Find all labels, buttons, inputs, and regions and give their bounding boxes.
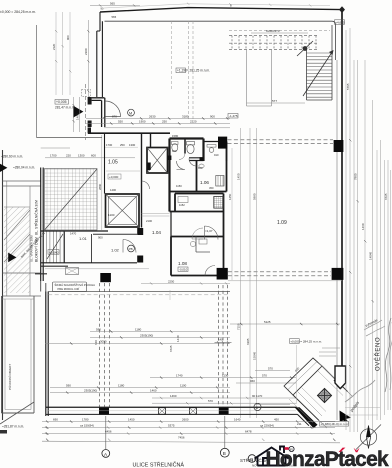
svg-text:=1,07: =1,07 bbox=[205, 229, 213, 233]
svg-text:1460: 1460 bbox=[150, 389, 157, 393]
wall upper-left vertical bbox=[97, 12, 103, 97]
svg-text:= 284,25 m.n.m.: = 284,25 m.n.m. bbox=[300, 339, 322, 343]
black jamb 1.06 bbox=[200, 157, 204, 161]
svg-text:565: 565 bbox=[112, 15, 117, 19]
axis leader B bbox=[224, 416, 226, 448]
svg-text:PŮVODNÍ OBJEKT: PŮVODNÍ OBJEKT bbox=[7, 364, 12, 390]
bottom room north edge bbox=[48, 291, 230, 293]
dim row above cluster 3 bbox=[104, 127, 230, 129]
svg-text:2890: 2890 bbox=[98, 183, 102, 190]
entrance arrow triangle bbox=[73, 106, 83, 118]
bottom dim row 3 bbox=[42, 433, 335, 435]
svg-text:1470: 1470 bbox=[70, 231, 77, 235]
svg-text:1.06: 1.06 bbox=[200, 180, 209, 185]
svg-text:3180: 3180 bbox=[182, 115, 189, 119]
hollow post 2 bbox=[190, 408, 197, 415]
watermark registered bbox=[289, 446, 294, 451]
door arc shaft-elevator bbox=[142, 181, 150, 189]
svg-text:HonzaPtacek: HonzaPtacek bbox=[266, 448, 390, 468]
dim line bottom right short bbox=[270, 427, 316, 429]
neighbour block outline left bbox=[2, 150, 4, 420]
column K6 bottom mid bbox=[219, 407, 229, 414]
svg-text:2220: 2220 bbox=[190, 120, 197, 124]
svg-text:≈280,60 m.n.m.: ≈280,60 m.n.m. bbox=[1, 155, 23, 159]
door arc 1.06 bbox=[189, 159, 197, 167]
watermark accent acute on a bbox=[339, 448, 346, 452]
diagonal passage edge west bbox=[293, 395, 319, 421]
room 1.07 walls bbox=[170, 194, 224, 212]
cursor arrow mark bbox=[340, 411, 352, 425]
svg-text:ULICE STŘELNIČNÁ: ULICE STŘELNIČNÁ bbox=[133, 461, 185, 468]
svg-text:≈280,04 m.n.m.: ≈280,04 m.n.m. bbox=[13, 166, 35, 170]
svg-text:1300: 1300 bbox=[78, 154, 85, 158]
cluster wall x150 top bbox=[150, 133, 152, 147]
svg-text:1.04: 1.04 bbox=[152, 230, 161, 235]
circle marker D bbox=[254, 403, 261, 410]
level box bottom right bbox=[320, 421, 349, 426]
svg-text:ca 220(94): ca 220(94) bbox=[260, 423, 274, 427]
svg-text:5375: 5375 bbox=[168, 423, 175, 427]
entrance jamb lower bbox=[88, 121, 92, 128]
svg-text:640: 640 bbox=[94, 340, 98, 345]
joint dashed pair mid bbox=[218, 285, 227, 407]
svg-text:281,47 m.n.m.: 281,47 m.n.m. bbox=[55, 106, 75, 110]
dashed label box top bbox=[82, 90, 91, 97]
door jamb blocks corridor bbox=[137, 228, 143, 235]
svg-text:1450: 1450 bbox=[236, 173, 240, 180]
svg-text:2305(190): 2305(190) bbox=[84, 389, 97, 393]
dim row below 1.08 bbox=[141, 283, 230, 285]
terrace diagonal bbox=[45, 169, 98, 230]
dashed joint line row1 bbox=[228, 140, 334, 144]
dim row above cluster 1 bbox=[86, 118, 230, 120]
door arc corridor south 2 bbox=[192, 228, 203, 239]
svg-text:690: 690 bbox=[53, 417, 58, 421]
svg-text:1460: 1460 bbox=[361, 223, 365, 230]
dashed vertical x171 bbox=[171, 21, 173, 90]
right margin dim chains bbox=[350, 28, 388, 432]
small room right of wc bbox=[204, 142, 227, 162]
svg-text:900: 900 bbox=[66, 35, 70, 40]
rotated hatch box on passage bbox=[317, 388, 331, 402]
signature squiggle 2 bbox=[345, 380, 375, 402]
canopy inner line bbox=[288, 362, 317, 390]
rooms bottom wall bbox=[41, 262, 137, 264]
column K1 top bbox=[218, 137, 227, 149]
bottom dim ticks bbox=[46, 420, 335, 441]
corridor west wall bbox=[104, 133, 106, 193]
entrance jamb lowest bbox=[88, 128, 91, 134]
level label box entrance bbox=[55, 100, 69, 105]
1.08 inner partition bbox=[196, 237, 210, 253]
right margin extra verticals bbox=[346, 30, 354, 432]
svg-text:140: 140 bbox=[218, 338, 223, 342]
svg-text:1460: 1460 bbox=[170, 394, 177, 398]
room 1.07 fixtures bbox=[178, 197, 188, 203]
svg-text:-1,475: -1,475 bbox=[229, 114, 238, 118]
terrace wing second line bbox=[41, 147, 70, 149]
axis circle B bbox=[220, 448, 229, 457]
passage exit lines bbox=[319, 392, 352, 429]
terrace wall lower extension bbox=[41, 281, 46, 292]
svg-text:+1,190: +1,190 bbox=[177, 69, 187, 73]
room 1.08 walls bbox=[171, 212, 224, 276]
column K2 right top bbox=[334, 140, 344, 152]
svg-text:1400: 1400 bbox=[110, 188, 116, 192]
level box 1.02 bbox=[48, 250, 59, 255]
svg-text:211: 211 bbox=[297, 422, 302, 426]
svg-text:450: 450 bbox=[274, 417, 279, 421]
dim rows under 1.08 left bbox=[50, 388, 230, 393]
svg-text:1100: 1100 bbox=[108, 213, 115, 217]
dim line across right room bbox=[230, 323, 340, 325]
svg-text:1740: 1740 bbox=[176, 373, 183, 377]
axis dashed vertical entrance bbox=[85, 84, 87, 140]
svg-text:450: 450 bbox=[209, 186, 214, 190]
svg-text:+0,040: +0,040 bbox=[49, 250, 59, 254]
svg-text:1.01: 1.01 bbox=[79, 236, 88, 241]
stair dim row 9x300 bbox=[251, 32, 308, 34]
column K0 joint top bbox=[100, 273, 111, 282]
svg-text:2630: 2630 bbox=[149, 115, 156, 119]
diagonal passage edge east bbox=[322, 366, 348, 392]
dim ticks above cluster bbox=[103, 117, 228, 124]
handwritten note right bbox=[364, 320, 385, 336]
svg-text:5880: 5880 bbox=[252, 193, 256, 200]
svg-text:900: 900 bbox=[98, 235, 103, 239]
stair solid flight right bbox=[307, 53, 333, 97]
level label box top right bbox=[335, 20, 345, 25]
wall between 1.01 and 1.02 bbox=[65, 231, 92, 263]
svg-text:1640: 1640 bbox=[234, 417, 241, 421]
svg-text:+0,005: +0,005 bbox=[56, 100, 67, 104]
stair label box bbox=[228, 114, 238, 119]
diagonal canopy parallelogram bbox=[284, 358, 322, 395]
dim chain x232 bbox=[231, 148, 233, 280]
level box 0.000 mid bbox=[290, 339, 300, 344]
svg-text:2600: 2600 bbox=[182, 417, 189, 421]
joint tick cluster bbox=[215, 341, 232, 344]
svg-text:250: 250 bbox=[120, 143, 125, 147]
left top dim chain verticals bbox=[56, 12, 70, 95]
room cluster: corridor 1.05 bbox=[88, 132, 170, 134]
svg-text:550: 550 bbox=[118, 120, 123, 124]
svg-text:570: 570 bbox=[268, 366, 273, 370]
circle marker PB bbox=[128, 245, 135, 252]
passage wall stub bbox=[334, 380, 342, 388]
svg-text:-0,010: -0,010 bbox=[179, 268, 188, 272]
lower stair flight vertical treads bbox=[47, 231, 64, 263]
terrace dim row bbox=[45, 157, 135, 159]
corridor small dims bbox=[106, 170, 140, 172]
wall outer top bbox=[100, 8, 342, 12]
svg-text:1780: 1780 bbox=[82, 417, 89, 421]
level note upper room bbox=[176, 68, 186, 73]
svg-text:BLOKOVÝ DŮM UL. STŘELNIČNÁ 30: BLOKOVÝ DŮM UL. STŘELNIČNÁ 30M bbox=[34, 200, 39, 262]
appliance hatch box 1.07 bbox=[214, 197, 223, 209]
svg-text:1.02: 1.02 bbox=[111, 248, 120, 253]
svg-text:1.09: 1.09 bbox=[277, 220, 287, 226]
signature squiggle 1 bbox=[385, 318, 391, 392]
level box 1.08 bbox=[178, 267, 188, 271]
svg-text:14040: 14040 bbox=[369, 252, 373, 260]
stair direction arrow bbox=[303, 53, 332, 96]
svg-text:1150: 1150 bbox=[176, 184, 182, 188]
svg-text:5795: 5795 bbox=[346, 83, 350, 90]
window symbol south wing bbox=[66, 268, 79, 275]
column K3 mid bbox=[217, 268, 228, 280]
svg-text:600: 600 bbox=[91, 154, 96, 158]
watermark accent caron on c bbox=[354, 448, 360, 452]
shaft X-box upper bbox=[147, 148, 168, 174]
svg-text:1300: 1300 bbox=[129, 143, 136, 147]
bottom wall of big room bbox=[46, 406, 297, 408]
axis leader A bbox=[105, 416, 107, 450]
sink symbol bbox=[209, 148, 214, 153]
wall inner top bbox=[105, 21, 336, 60]
joint mid dim 140 bbox=[169, 290, 171, 300]
svg-text:590: 590 bbox=[96, 327, 101, 331]
svg-text:3050: 3050 bbox=[100, 339, 107, 343]
svg-text:+0,000: +0,000 bbox=[109, 175, 119, 179]
svg-text:220: 220 bbox=[66, 154, 71, 158]
elevator X-box bbox=[106, 194, 140, 227]
right chain ticks bbox=[349, 139, 374, 367]
stair well walls bbox=[307, 25, 333, 100]
svg-text:+4,675: +4,675 bbox=[335, 20, 345, 24]
top margin ticks bbox=[90, 5, 140, 7]
bottom dim row 2 bbox=[42, 427, 335, 429]
canopy dashed verticals bbox=[189, 21, 194, 120]
terrace grid hatch bbox=[45, 169, 98, 231]
column K4 right mid bbox=[332, 268, 344, 280]
svg-text:1700: 1700 bbox=[106, 143, 113, 147]
corridor wall x171 lower bbox=[170, 212, 172, 237]
hollow post 1 bbox=[159, 408, 166, 415]
expansion joint dashed pair left bbox=[100, 283, 110, 407]
second wc fixture bbox=[172, 142, 179, 145]
svg-text:9x300/170: 9x300/170 bbox=[266, 29, 280, 33]
lower neighbour rect outer bbox=[2, 296, 35, 413]
lower terrace wall bbox=[35, 266, 68, 274]
compass cross line bbox=[356, 425, 381, 450]
svg-text:1580: 1580 bbox=[172, 134, 179, 138]
svg-text:910: 910 bbox=[214, 153, 219, 157]
rooms 1.01 1.02 top wall bbox=[41, 230, 108, 232]
pillar pentagon right bbox=[335, 366, 346, 389]
wall inner right bbox=[336, 60, 338, 420]
right margin vertical extra2 bbox=[368, 340, 370, 420]
svg-text:B: B bbox=[223, 451, 226, 456]
svg-text:PRE MODUL CIZÍ: PRE MODUL CIZÍ bbox=[58, 287, 80, 291]
svg-text:250: 250 bbox=[162, 120, 167, 124]
flag triangle upper bbox=[0, 164, 7, 172]
svg-text:1900: 1900 bbox=[139, 120, 146, 124]
svg-text:±0,000 = 284,25 m.n.m.: ±0,000 = 284,25 m.n.m. bbox=[0, 10, 36, 14]
shaft black patch bbox=[147, 163, 150, 171]
1.08 fixtures bbox=[199, 239, 207, 244]
dim chain left of cluster bbox=[101, 135, 103, 230]
svg-text:960: 960 bbox=[250, 379, 255, 383]
stair dim 577 bbox=[247, 102, 306, 104]
door arc corridor south bbox=[205, 226, 219, 240]
extra bottom row ticks bbox=[45, 426, 298, 441]
room 1.06 walls bbox=[170, 142, 227, 192]
wc divider wall bbox=[184, 139, 186, 154]
entrance side wall bbox=[92, 98, 105, 127]
site boundary vertical x36 bbox=[36, 25, 38, 138]
bottom dim row 1 bbox=[42, 421, 335, 423]
svg-text:2300: 2300 bbox=[84, 48, 88, 55]
svg-text:2250: 2250 bbox=[168, 279, 175, 283]
svg-text:OVĚŘENO: OVĚŘENO bbox=[374, 337, 382, 371]
chamfer wall fill bbox=[295, 407, 318, 428]
door arc corridor bbox=[177, 161, 186, 170]
right margin far verticals bbox=[377, 150, 391, 420]
terrace wall west bbox=[41, 168, 44, 282]
stair dashed flight top bbox=[229, 31, 330, 50]
axis circle M bbox=[128, 109, 135, 116]
svg-text:7456: 7456 bbox=[178, 436, 185, 440]
svg-text:5125: 5125 bbox=[264, 320, 271, 324]
svg-text:≈281,87 m.n.m.: ≈281,87 m.n.m. bbox=[2, 425, 24, 429]
svg-text:6305: 6305 bbox=[246, 338, 250, 345]
top outside dim line bbox=[104, 4, 330, 8]
dim rows above 1.08 area (y 331-343) bbox=[45, 332, 230, 344]
svg-text:1.08: 1.08 bbox=[178, 261, 187, 266]
svg-text:1.05: 1.05 bbox=[108, 160, 118, 166]
watermark logo house bbox=[255, 447, 289, 466]
entrance jamb upper bbox=[88, 97, 92, 105]
svg-text:590: 590 bbox=[66, 383, 71, 387]
svg-text:1130: 1130 bbox=[222, 373, 229, 377]
svg-text:577: 577 bbox=[272, 99, 277, 103]
svg-text:1180: 1180 bbox=[135, 327, 142, 331]
dim row above cluster 2 bbox=[86, 123, 230, 125]
1.08 door arc bbox=[205, 266, 215, 276]
svg-text:870: 870 bbox=[112, 115, 117, 119]
svg-text:+0,000: +0,000 bbox=[290, 339, 300, 343]
chamfer outer line bbox=[298, 414, 310, 425]
axis circle A bbox=[102, 450, 110, 458]
compass circle bbox=[360, 429, 376, 445]
wc toilet bbox=[187, 142, 195, 145]
note box sikma bbox=[53, 282, 87, 292]
bottom dim row 4 bbox=[42, 441, 340, 443]
garage ramp edges bbox=[4, 186, 30, 296]
svg-text:570: 570 bbox=[208, 399, 213, 403]
svg-text:1440: 1440 bbox=[176, 335, 180, 342]
passage secondary lines bbox=[297, 362, 343, 416]
svg-text:UL. VRANSKÁ 20M: UL. VRANSKÁ 20M bbox=[30, 235, 34, 262]
wall under wc bbox=[189, 158, 204, 161]
svg-text:1700: 1700 bbox=[50, 154, 57, 158]
lower stair arrow bbox=[47, 234, 63, 259]
dim chain verticals middle bbox=[241, 128, 257, 418]
wall between corridor and shafts bbox=[141, 133, 143, 227]
wc room walls bbox=[170, 139, 204, 212]
svg-text:2100: 2100 bbox=[146, 219, 152, 223]
svg-text:2305(190): 2305(190) bbox=[140, 333, 153, 337]
solid line under row2 bbox=[228, 280, 342, 282]
dashed joint line row2 bbox=[228, 272, 331, 276]
stair guide verticals bbox=[247, 50, 272, 106]
svg-text:1152: 1152 bbox=[179, 203, 185, 207]
right margin horizontals bottom bbox=[345, 408, 380, 416]
node corner diamond bbox=[339, 6, 345, 13]
dim rows mid-right above bottom wall bbox=[150, 378, 296, 404]
svg-text:B: B bbox=[250, 457, 253, 462]
terrace wing top line bbox=[37, 137, 103, 139]
svg-text:PB: PB bbox=[129, 247, 133, 251]
corridor 1.04 guide lines bbox=[142, 214, 170, 217]
svg-text:1450: 1450 bbox=[228, 193, 232, 200]
wall outer right bbox=[341, 10, 343, 366]
flag triangle lower bbox=[8, 253, 16, 263]
lower neighbour rect inner bbox=[2, 299, 35, 410]
svg-text:D: D bbox=[256, 406, 259, 410]
entrance door arc bbox=[105, 101, 121, 117]
bottom room west wall bbox=[46, 292, 48, 417]
garage ramp hatch bbox=[4, 207, 30, 293]
svg-text:15040: 15040 bbox=[252, 352, 256, 360]
dim row under rooms bbox=[45, 268, 149, 270]
svg-text:1450: 1450 bbox=[128, 417, 135, 421]
bottom wall inner thin bbox=[48, 410, 296, 412]
svg-text:1100: 1100 bbox=[180, 383, 187, 387]
circle marker B2 bbox=[248, 455, 256, 463]
stair break symbol bbox=[303, 46, 308, 51]
passage extra parallels bbox=[289, 371, 343, 423]
svg-text:900: 900 bbox=[210, 115, 215, 119]
dim ext vertical x296 bbox=[296, 345, 298, 404]
radiator 1.06 bbox=[216, 176, 224, 187]
door arc 1.02 bbox=[123, 240, 136, 253]
column K5 bottom left bbox=[99, 408, 109, 415]
svg-text:570: 570 bbox=[262, 373, 267, 377]
neighbour diagonal cut bbox=[0, 402, 34, 424]
basin 1.06 bbox=[199, 164, 204, 168]
svg-text:M: M bbox=[129, 111, 132, 115]
road edge mark bbox=[0, 430, 7, 434]
small boxes near canopy top bbox=[319, 348, 340, 356]
black jamb wc bbox=[168, 156, 172, 161]
dim short rows left of diagonal bbox=[255, 371, 290, 405]
svg-text:565: 565 bbox=[110, 2, 115, 6]
svg-text:1180: 1180 bbox=[118, 383, 125, 387]
watermark red logo dot bbox=[285, 447, 289, 450]
compass needle bbox=[366, 426, 370, 449]
left top dim chain bbox=[74, 20, 89, 132]
stair dashed mid boundary bbox=[229, 42, 319, 44]
svg-text:ca 150(94): ca 150(94) bbox=[80, 423, 94, 427]
svg-text:6725: 6725 bbox=[169, 345, 173, 352]
svg-text:= 281,25 m.n.m.: = 281,25 m.n.m. bbox=[187, 69, 210, 73]
svg-text:90 1170: 90 1170 bbox=[252, 394, 263, 398]
svg-text:1480: 1480 bbox=[75, 113, 79, 120]
svg-text:6478: 6478 bbox=[245, 429, 252, 433]
neighbour block garage rect bbox=[3, 181, 42, 296]
svg-text:2120: 2120 bbox=[52, 43, 56, 50]
